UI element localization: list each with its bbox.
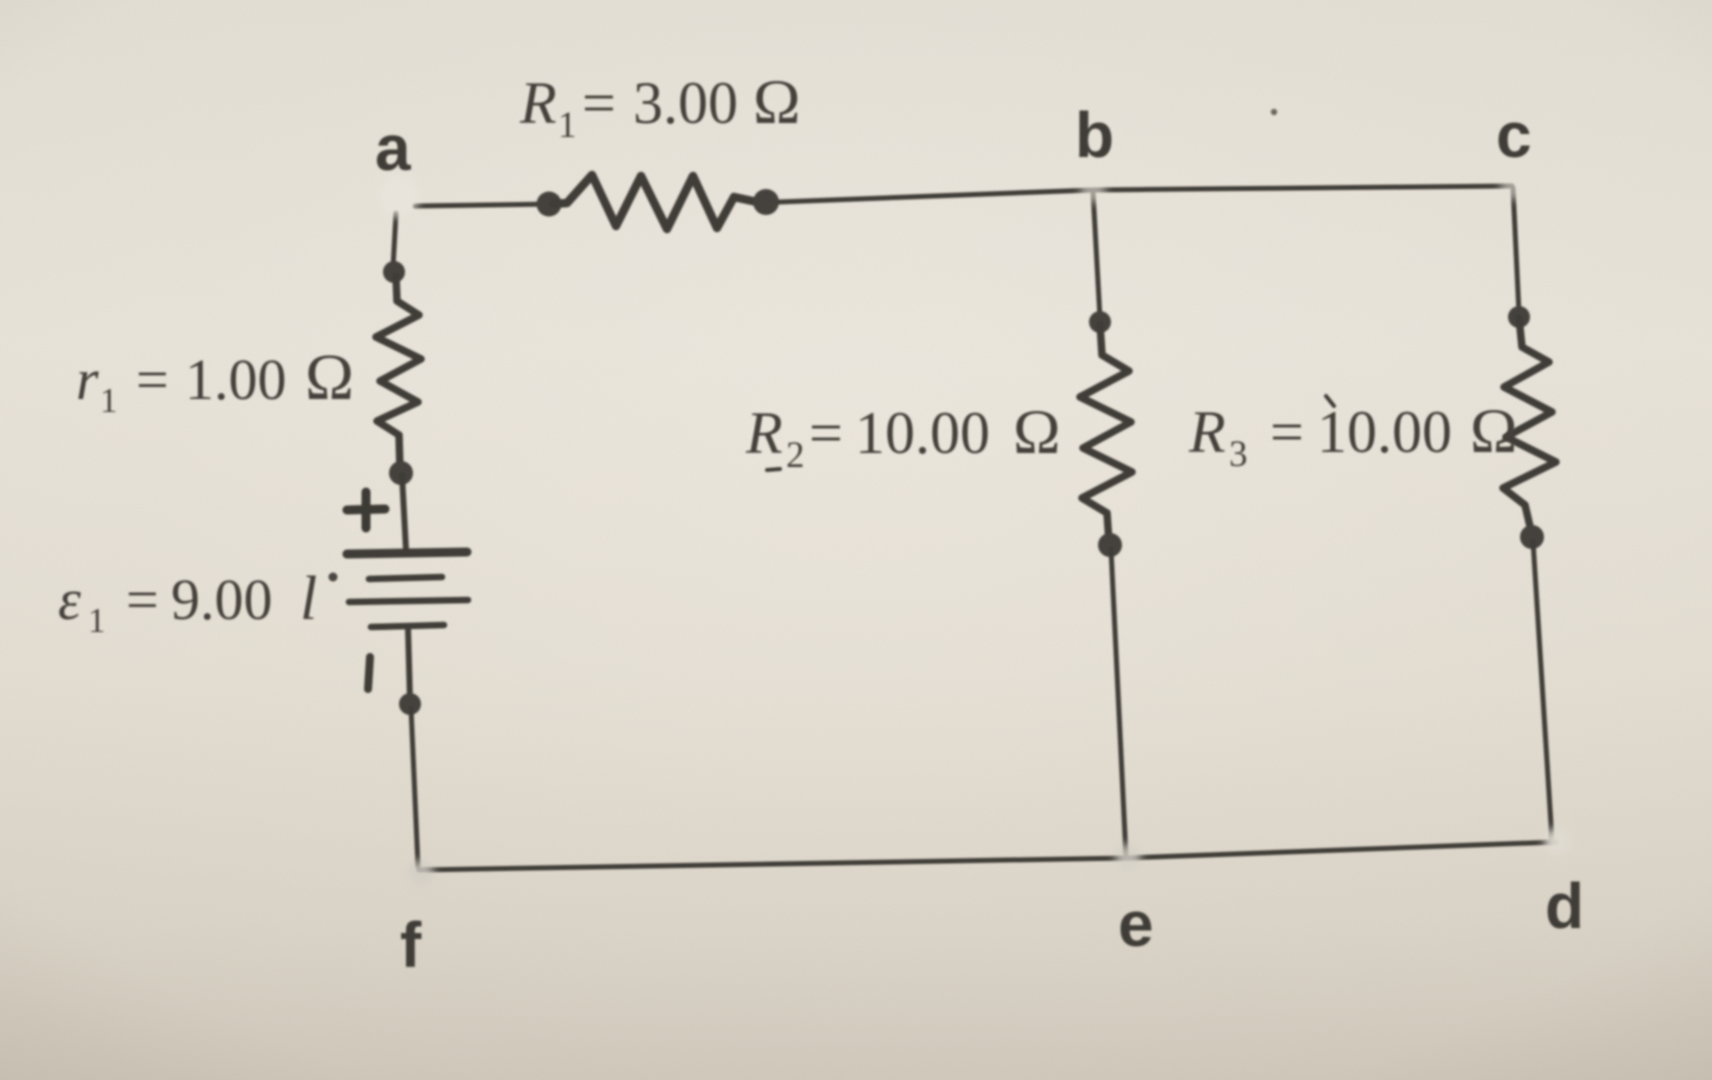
battery E1 plate 1 (long, top): [347, 552, 467, 554]
junction dot above R3: [1508, 306, 1530, 328]
light blob at node a: [379, 177, 419, 217]
svg-text:b: b: [1075, 99, 1114, 171]
wire node b to node c: [1092, 186, 1512, 190]
resistor R1: [553, 175, 757, 229]
wire node b down to R2: [1093, 192, 1100, 318]
battery E1 plate 2 (short): [369, 577, 442, 579]
junction dot below r1: [389, 461, 413, 485]
junction dot above r1: [383, 261, 405, 283]
light blob at node b: [1080, 177, 1106, 203]
wire node c down to R3: [1513, 188, 1519, 313]
wire r1 to battery: [402, 475, 406, 550]
svg-text:c: c: [1496, 99, 1532, 171]
junction dot left of R1: [537, 192, 562, 217]
current tick mark below battery: [368, 657, 370, 689]
wire R1 to node b: [779, 190, 1092, 202]
stray speck dot near top: [1271, 109, 1277, 115]
accent mark over R3 value: [1326, 396, 1334, 406]
resistor r1 (internal resistance): [376, 276, 421, 470]
resistor R2: [1080, 324, 1132, 542]
svg-text:d: d: [1545, 870, 1584, 942]
plus sign at battery positive terminal: [347, 492, 385, 528]
junction dot below R2: [1098, 533, 1122, 557]
svg-text:e: e: [1118, 888, 1154, 960]
resistor R3: [1503, 318, 1556, 535]
svg-text:a: a: [375, 112, 411, 184]
junction dot below R3: [1520, 525, 1544, 549]
junction dot right of R1: [753, 189, 779, 215]
light blob at node c: [1500, 174, 1526, 200]
dot after emf label: [329, 573, 338, 582]
battery E1 plate 3 (long): [349, 600, 468, 602]
light blob at node f: [408, 860, 434, 886]
bottom wire f to e to d: [419, 842, 1556, 870]
wire a to R1 (top left segment): [415, 204, 552, 206]
wire battery to junction below: [408, 628, 410, 700]
light blob at node e: [1115, 844, 1141, 870]
wire R2 down to node e: [1111, 549, 1126, 856]
junction dot below battery: [399, 693, 421, 715]
wire R3 down to node d: [1533, 541, 1552, 840]
battery E1 plate 4 (short, bottom): [371, 625, 444, 627]
wire junction down to node f: [411, 708, 418, 866]
light blob at node d: [1544, 828, 1570, 854]
svg-text:f: f: [400, 909, 422, 981]
junction dot above R2: [1089, 311, 1111, 333]
wire node a down to r1: [393, 213, 396, 268]
subscript dash under R2 label: [767, 469, 780, 470]
